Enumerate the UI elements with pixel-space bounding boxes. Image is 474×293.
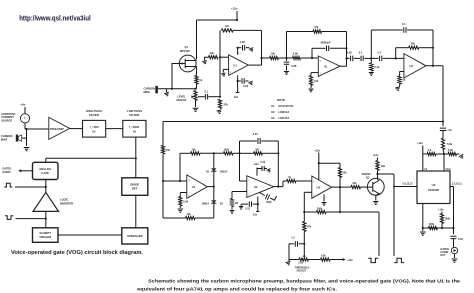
resistor 27k xyxy=(218,99,221,108)
ground xyxy=(459,154,465,159)
svg-text:0.1: 0.1 xyxy=(359,50,363,54)
svg-text:30pF: 30pF xyxy=(266,201,272,204)
svg-text:6: 6 xyxy=(320,60,321,62)
svg-text:10k: 10k xyxy=(192,148,197,151)
+12v supply arrow xyxy=(330,259,344,261)
wire input riser xyxy=(219,57,221,96)
capacitor 0.68 shunt xyxy=(286,58,288,61)
svg-text:+12v: +12v xyxy=(438,207,444,211)
wire xyxy=(195,217,214,219)
svg-text:+12v: +12v xyxy=(373,153,379,157)
svg-text:MIKE: MIKE xyxy=(144,90,151,94)
ground xyxy=(217,110,223,114)
svg-text:+10: +10 xyxy=(447,128,452,132)
node xyxy=(452,227,454,229)
resistor 1M xyxy=(222,29,234,32)
svg-text:0.22: 0.22 xyxy=(243,84,249,88)
svg-text:LOGIC: LOGIC xyxy=(60,197,68,201)
op-amp U2 xyxy=(404,54,426,78)
svg-text:7: 7 xyxy=(336,64,337,66)
ground xyxy=(286,261,292,265)
transistor Q2 xyxy=(367,178,384,195)
wire xyxy=(279,57,293,59)
svg-text:3: 3 xyxy=(230,72,231,74)
resistor 5.6k rail xyxy=(441,138,444,149)
svg-text:1.0: 1.0 xyxy=(291,237,295,240)
resistor 10k det xyxy=(191,152,201,155)
wire U4 control xyxy=(394,186,417,188)
svg-text:MPF102: MPF102 xyxy=(180,49,190,53)
svg-text:6: 6 xyxy=(328,185,329,187)
wire xyxy=(303,232,305,257)
svg-text:10k: 10k xyxy=(271,52,276,56)
wire xyxy=(180,152,191,154)
ground xyxy=(193,108,199,111)
svg-text:10k: 10k xyxy=(411,41,416,45)
svg-text:39000pF: 39000pF xyxy=(321,41,331,44)
node xyxy=(370,57,372,59)
wire det input xyxy=(163,180,187,182)
wire xyxy=(27,128,49,130)
non-inv stub xyxy=(223,68,228,70)
svg-text:5.6: 5.6 xyxy=(428,149,432,152)
capacitor 0.22 coupling xyxy=(347,57,350,59)
ground xyxy=(24,148,30,151)
wire xyxy=(233,152,240,154)
svg-text:U3: U3 xyxy=(271,116,275,120)
bypass cap xyxy=(262,166,264,171)
wire xyxy=(16,218,46,220)
svg-text:10k: 10k xyxy=(187,213,192,216)
potentiometer 2.5k threshold xyxy=(289,259,299,261)
inv network 5.6k xyxy=(180,192,187,194)
svg-text:6: 6 xyxy=(270,185,271,187)
node xyxy=(345,47,347,49)
preamp A1 xyxy=(49,117,70,139)
node xyxy=(162,180,164,182)
resistor 5.6k right xyxy=(444,153,448,155)
node xyxy=(393,185,395,187)
svg-text:CARBON: CARBON xyxy=(144,86,156,90)
wire U4 pin 489 xyxy=(443,154,445,171)
left rail 2 xyxy=(162,154,164,218)
resistor 1k xyxy=(287,179,297,182)
wire xyxy=(261,30,263,65)
left rail xyxy=(162,122,164,146)
resistor 10k base xyxy=(351,186,361,189)
feedback 47k loop xyxy=(286,32,288,59)
resistor 5.6k xyxy=(293,56,301,59)
svg-text:5: 5 xyxy=(320,73,321,75)
svg-text:0.68: 0.68 xyxy=(291,64,297,68)
node xyxy=(395,57,397,59)
svg-text:0.02: 0.02 xyxy=(458,238,463,241)
averager block xyxy=(122,228,148,244)
node xyxy=(236,19,238,21)
diode D2 xyxy=(213,187,215,201)
svg-text:CD4016B: CD4016B xyxy=(428,189,439,192)
wire xyxy=(45,211,47,227)
wire xyxy=(220,56,229,58)
svg-text:27k: 27k xyxy=(224,103,229,107)
svg-text:U1: U1 xyxy=(233,63,237,67)
resistor 100k hyst xyxy=(317,210,327,213)
gated audio out jack xyxy=(451,247,457,253)
wire xyxy=(262,57,270,59)
resistor 2.4k shunt xyxy=(370,58,372,63)
svg-text:9: 9 xyxy=(188,195,189,197)
svg-text:ADJUST: ADJUST xyxy=(297,270,307,273)
svg-text:47k: 47k xyxy=(307,226,312,229)
ground xyxy=(452,259,458,262)
svg-text:TRIGGER: TRIGGER xyxy=(39,235,51,239)
svg-text:U1: U1 xyxy=(271,104,275,108)
svg-text:0.22: 0.22 xyxy=(347,50,353,54)
wire xyxy=(346,32,348,67)
svg-text:U1: U1 xyxy=(324,64,328,68)
svg-text:2.4k: 2.4k xyxy=(374,65,380,69)
wire xyxy=(326,211,379,213)
svg-text:100k: 100k xyxy=(224,148,230,151)
-12v supply xyxy=(257,204,259,211)
feedback 10k upper xyxy=(319,162,340,164)
feedback cap 0.1 loop xyxy=(370,30,372,58)
ground pin xyxy=(323,194,325,201)
svg-text:AVERAGER: AVERAGER xyxy=(127,234,143,238)
svg-text:100k: 100k xyxy=(445,218,451,221)
wire long bus xyxy=(163,121,443,123)
resistor 10k bottom xyxy=(186,216,196,219)
svg-text:SCHMITT: SCHMITT xyxy=(39,231,51,235)
svg-text:GATE: GATE xyxy=(41,171,49,175)
wire xyxy=(24,123,26,129)
wire xyxy=(15,186,46,188)
svg-text:5.6k: 5.6k xyxy=(293,52,299,56)
capacitor 30pF xyxy=(265,194,269,200)
svg-text:FILTER: FILTER xyxy=(129,113,140,117)
diode D1 xyxy=(213,153,215,168)
resistor 10k pullup xyxy=(376,161,379,171)
waveform low pulse xyxy=(368,258,378,262)
low pass filter block xyxy=(123,120,146,137)
resistor 5.6k xyxy=(309,259,321,261)
svg-text:MIKE: MIKE xyxy=(1,138,8,142)
wire xyxy=(45,180,47,193)
node xyxy=(277,152,279,154)
wire xyxy=(58,234,122,236)
feedback resistor 10k xyxy=(395,48,397,59)
svg-text:+6v: +6v xyxy=(20,103,25,107)
wire xyxy=(45,158,47,162)
wire U4 pin 14 xyxy=(422,154,424,171)
svg-text:1M: 1M xyxy=(255,148,258,151)
svg-text:GATED: GATED xyxy=(2,166,11,170)
svg-text:2.5k: 2.5k xyxy=(298,262,303,265)
gated audio arrow xyxy=(20,170,33,172)
svg-text:0.1: 0.1 xyxy=(378,50,382,54)
-12v supply xyxy=(237,81,239,93)
node xyxy=(194,88,196,90)
svg-text:OUT: OUT xyxy=(440,254,446,257)
svg-text:3: 3 xyxy=(405,74,406,76)
svg-text:5.6k: 5.6k xyxy=(183,200,188,203)
svg-text:ADJUST: ADJUST xyxy=(176,98,187,102)
wire xyxy=(196,84,198,89)
transistor Q1 xyxy=(179,55,196,72)
svg-text:5.6k: 5.6k xyxy=(447,142,453,146)
svg-text:I: I xyxy=(25,117,26,121)
wire xyxy=(378,173,395,175)
svg-text:10k: 10k xyxy=(166,149,171,152)
svg-text:Schematic showing the carbon m: Schematic showing the carbon microphone … xyxy=(148,279,460,285)
svg-text:7: 7 xyxy=(320,179,321,181)
resistor 47k xyxy=(303,222,306,232)
ground stub xyxy=(166,89,168,92)
resistor 100k pullup xyxy=(440,214,443,224)
svg-text:10: 10 xyxy=(188,179,190,181)
resistor 100k xyxy=(429,226,438,229)
svg-text:U2: U2 xyxy=(409,64,413,68)
averager input riser xyxy=(239,141,241,181)
node xyxy=(318,162,320,164)
svg-text:0.22: 0.22 xyxy=(240,40,246,44)
node xyxy=(441,227,443,229)
carbon mike MK1 xyxy=(16,135,18,142)
non-inv network 1k xyxy=(400,71,404,73)
svg-text:1N914: 1N914 xyxy=(202,203,210,206)
svg-text:=3000: =3000 xyxy=(131,125,139,129)
diode det block xyxy=(122,178,148,196)
node xyxy=(339,186,341,188)
svg-text:-12v: -12v xyxy=(233,95,239,99)
resistor 10k xyxy=(270,56,279,59)
svg-text:4,8,9: 4,8,9 xyxy=(445,168,451,171)
svg-text:+12v: +12v xyxy=(253,163,259,166)
svg-text:5.6k: 5.6k xyxy=(321,255,326,258)
svg-text:0.1: 0.1 xyxy=(402,22,406,26)
U1a top supply bypass 0.22 xyxy=(237,48,239,55)
svg-text:13: 13 xyxy=(238,53,240,55)
capacitor 1.0 xyxy=(299,243,305,245)
node xyxy=(219,96,221,98)
cap loop 0.22 xyxy=(240,140,257,142)
node xyxy=(339,211,341,213)
op-amp U1d xyxy=(187,175,208,199)
svg-text:SOURCE: SOURCE xyxy=(1,119,12,123)
analog gate block xyxy=(33,162,59,179)
resistor 10k rail xyxy=(161,145,164,154)
hysteresis wire xyxy=(304,211,316,213)
svg-text:LM301A: LM301A xyxy=(279,110,290,114)
capacitor 0.1 xyxy=(198,96,205,98)
wire xyxy=(423,227,454,229)
node xyxy=(376,173,378,175)
svg-text:CARBON: CARBON xyxy=(1,134,13,138)
op-amp U1b xyxy=(318,56,340,77)
svg-text:NOTE:: NOTE: xyxy=(277,98,286,102)
non-inv network 10k xyxy=(311,72,318,74)
svg-text:+12v: +12v xyxy=(231,7,238,11)
svg-text:U2: U2 xyxy=(271,110,275,114)
svg-text:1M: 1M xyxy=(225,24,229,28)
svg-text:4: 4 xyxy=(326,197,327,199)
wire xyxy=(22,137,27,139)
wire output xyxy=(426,65,443,67)
wire xyxy=(158,88,196,90)
resistor 100k det xyxy=(224,152,234,155)
high pass filter block xyxy=(83,120,106,137)
svg-text:1: 1 xyxy=(245,63,246,65)
wire schmitt out xyxy=(332,186,352,188)
carbon mike MK2 xyxy=(155,86,158,93)
svg-text:2: 2 xyxy=(248,180,249,182)
svg-text:6: 6 xyxy=(422,64,423,66)
svg-text:INVERTER: INVERTER xyxy=(60,201,73,205)
svg-text:3: 3 xyxy=(248,195,249,197)
wire block top xyxy=(46,157,136,159)
svg-text:U1: U1 xyxy=(192,185,196,189)
wire U4 pin7 xyxy=(422,204,424,232)
node xyxy=(442,120,444,122)
svg-text:100k: 100k xyxy=(317,207,323,210)
wire audio rail xyxy=(442,66,444,126)
node xyxy=(432,47,434,49)
svg-text:U2: U2 xyxy=(254,185,258,189)
node mic junction xyxy=(25,128,27,130)
svg-text:CURRENT: CURRENT xyxy=(1,115,14,119)
node xyxy=(238,152,240,154)
svg-text:Q1: Q1 xyxy=(185,45,189,49)
node xyxy=(179,180,181,182)
capacitor 39000pF loop xyxy=(311,48,313,58)
wire to waveform xyxy=(378,212,380,256)
node xyxy=(303,243,305,245)
capacitor 10uF xyxy=(440,128,446,130)
schmitt trigger block xyxy=(33,228,59,243)
wire xyxy=(301,57,319,59)
capacitor 0.1 b xyxy=(380,56,382,62)
svg-text:100k: 100k xyxy=(429,223,435,226)
svg-text:RC4136 DC: RC4136 DC xyxy=(279,104,294,108)
svg-text:PREAMP: PREAMP xyxy=(50,127,64,131)
op-amp U3 xyxy=(312,176,332,198)
svg-text:-12v: -12v xyxy=(252,214,258,217)
potentiometer level adjust xyxy=(194,91,197,101)
svg-text:10k: 10k xyxy=(342,171,347,174)
wire xyxy=(135,158,137,178)
svg-text:LEVEL: LEVEL xyxy=(177,95,186,99)
node xyxy=(260,57,262,59)
svg-text:LM741A: LM741A xyxy=(279,116,290,120)
wire xyxy=(70,128,83,130)
svg-text:1M: 1M xyxy=(235,202,238,205)
wire gate xyxy=(172,64,179,89)
pulse symbol xyxy=(4,183,12,187)
IC U4 xyxy=(417,171,450,204)
inverted pulse symbol xyxy=(5,216,13,220)
svg-text:2,3,10,11: 2,3,10,11 xyxy=(452,182,463,185)
svg-text:U4: U4 xyxy=(432,183,436,187)
node xyxy=(213,152,215,154)
svg-text:FILTER: FILTER xyxy=(89,113,100,117)
svg-text:0.22: 0.22 xyxy=(261,161,266,164)
ground xyxy=(420,232,426,235)
svg-text:10k: 10k xyxy=(352,182,357,185)
svg-text:2: 2 xyxy=(230,59,231,61)
non-inv bias resistor 1M xyxy=(232,191,247,193)
svg-text:AUDIO: AUDIO xyxy=(2,170,10,174)
wire det out xyxy=(207,186,213,188)
resistor 10k to ground xyxy=(209,56,219,59)
svg-text:0.1: 0.1 xyxy=(204,90,208,94)
current source I1 xyxy=(20,114,29,123)
wire xyxy=(106,128,123,130)
inv input wire xyxy=(304,191,312,193)
svg-text:+12v: +12v xyxy=(347,258,353,262)
wire LPF to block diagram xyxy=(135,137,137,158)
svg-text:CONSTANT: CONSTANT xyxy=(1,112,16,116)
svg-text:DET: DET xyxy=(132,187,138,191)
op-amp U2 averager xyxy=(247,176,274,198)
resistor 5.6k left xyxy=(423,153,427,155)
svg-text:=300: =300 xyxy=(92,125,99,129)
node xyxy=(219,56,221,58)
wire U4 out xyxy=(450,186,454,188)
det feedback riser xyxy=(179,153,181,181)
svg-text:5.6k: 5.6k xyxy=(448,149,453,152)
node xyxy=(277,186,279,188)
emitter ground xyxy=(375,195,377,200)
wire xyxy=(240,180,247,182)
node A xyxy=(443,153,445,155)
wire avg out xyxy=(274,186,283,188)
svg-text:+12v: +12v xyxy=(314,148,320,152)
+12v pin xyxy=(256,168,258,176)
svg-text:47k: 47k xyxy=(314,25,319,29)
collector wire xyxy=(377,174,379,180)
feedback resistor 1M xyxy=(219,30,221,57)
svg-text:equivalent of four μA741 op am: equivalent of four μA741 op amps and cou… xyxy=(137,286,337,292)
node xyxy=(422,227,424,229)
svg-text:10k: 10k xyxy=(381,165,386,168)
svg-text:http://www.qsl.net/va3iul: http://www.qsl.net/va3iul xyxy=(19,15,91,22)
resistor 1M avg xyxy=(240,152,254,154)
svg-text:0.22: 0.22 xyxy=(253,133,258,136)
svg-text:0.22: 0.22 xyxy=(245,208,250,211)
svg-text:1N914: 1N914 xyxy=(220,171,228,174)
svg-text:2: 2 xyxy=(405,58,406,60)
svg-text:8: 8 xyxy=(204,185,205,187)
svg-text:10k: 10k xyxy=(210,51,215,55)
op-amp U1a xyxy=(229,55,249,76)
wire xyxy=(200,152,224,154)
node xyxy=(303,211,305,213)
capacitor 0.02 out xyxy=(451,236,457,238)
bottom wire det xyxy=(163,217,186,219)
svg-text:3: 3 xyxy=(313,181,314,183)
node xyxy=(213,186,215,188)
threshold riser xyxy=(303,212,305,222)
source resistor 1k xyxy=(196,67,198,76)
svg-text:5,6,12,13: 5,6,12,13 xyxy=(403,182,414,185)
capacitor 0.1 a xyxy=(361,56,363,62)
waveform high pulse xyxy=(394,258,404,262)
svg-text:Voice-operated gate (VOG) circ: Voice-operated gate (VOG) circuit block … xyxy=(11,250,144,256)
svg-text:U3: U3 xyxy=(317,185,321,189)
svg-text:10k: 10k xyxy=(314,79,319,83)
svg-text:+12v: +12v xyxy=(417,141,423,145)
wire xyxy=(197,19,238,21)
